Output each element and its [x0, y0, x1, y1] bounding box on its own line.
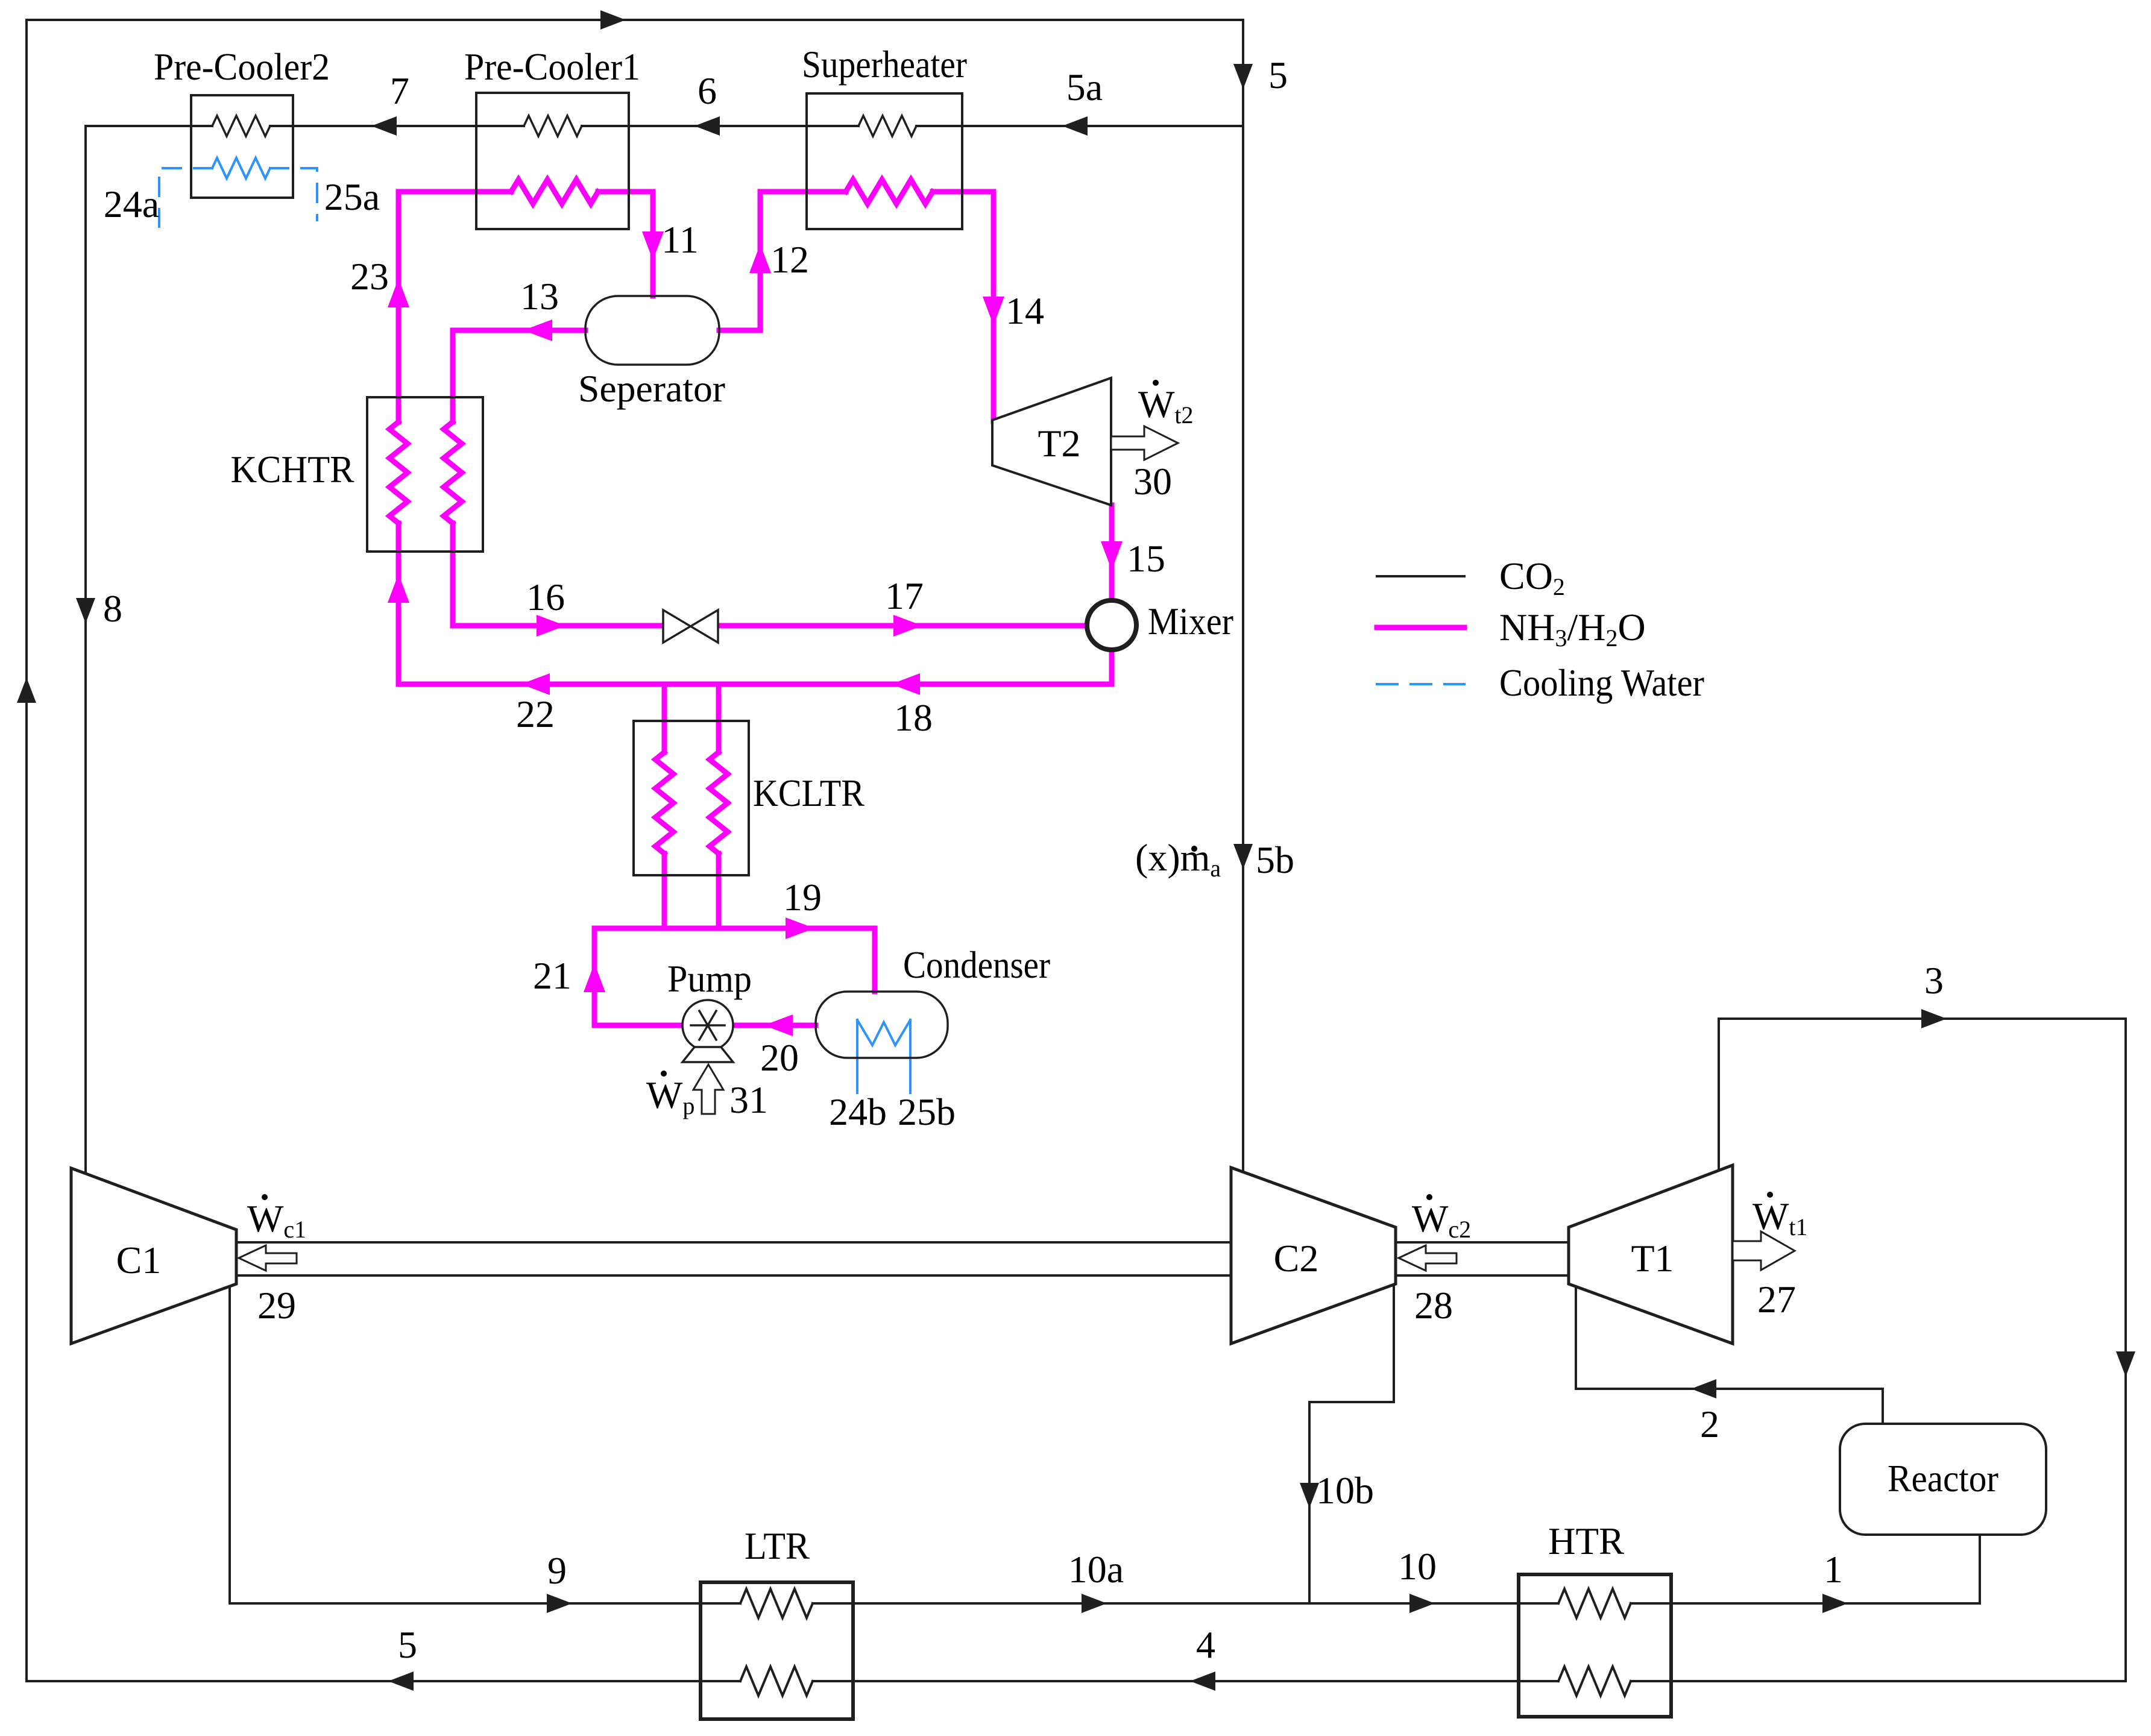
- heat exchanger KCHTR box: [367, 397, 483, 552]
- svg-text:NH3/H2O: NH3/H2O: [1499, 606, 1646, 652]
- svg-text:9: 9: [547, 1549, 567, 1592]
- svg-text:18: 18: [894, 696, 933, 739]
- wire 12 from Seperator to Superheater: [719, 192, 846, 330]
- svg-text:4: 4: [1196, 1623, 1215, 1666]
- work arrow Wc2 into C2: [1399, 1245, 1457, 1271]
- wire 14 from Superheater to turbine T2: [933, 192, 994, 421]
- arrow 1 right: [1822, 1594, 1848, 1613]
- wire KCLTR right branch (18 down to 19): [716, 684, 722, 752]
- turbine T1: [1569, 1165, 1733, 1344]
- compressor C2: [1231, 1168, 1396, 1344]
- svg-text:11: 11: [661, 218, 699, 261]
- svg-text:13: 13: [520, 275, 559, 318]
- svg-text:14: 14: [1006, 289, 1044, 332]
- svg-text:(x)ma: (x)ma: [1135, 836, 1221, 882]
- svg-text:Mixer: Mixer: [1148, 600, 1233, 643]
- arrow left riser up: [17, 678, 36, 703]
- svg-text:5b: 5b: [1256, 838, 1294, 881]
- arrow KCHTR inlet up: [388, 574, 409, 603]
- wire top CO2 line (to 5): [27, 19, 1243, 21]
- svg-text:KCHTR: KCHTR: [231, 448, 354, 491]
- svg-text:19: 19: [783, 876, 822, 919]
- svg-text:30: 30: [1133, 460, 1172, 503]
- wire Pump to 21 corner: [594, 1023, 682, 1028]
- wire 20 Condenser to Pump: [733, 1023, 816, 1028]
- heat exchanger Pre-Cooler1 box: [476, 93, 629, 229]
- svg-text:Condenser: Condenser: [903, 943, 1050, 986]
- svg-text:C1: C1: [116, 1239, 162, 1282]
- wire left outer vertical (5 to top): [25, 20, 28, 1681]
- svg-text:T2: T2: [1038, 422, 1080, 465]
- heat exchanger Pre-Cooler2 box: [191, 95, 293, 198]
- svg-text:Seperator: Seperator: [578, 367, 725, 410]
- arrow 7 left: [371, 116, 397, 136]
- wire right vertical from 3 down: [2124, 1019, 2127, 1681]
- wire cooling water 25b: [909, 1020, 912, 1093]
- svg-text:25a: 25a: [324, 175, 380, 218]
- mixer circle: [1087, 600, 1136, 650]
- legend cooling water sample line (dashed): [1377, 683, 1464, 685]
- wire 22-23 riser through KCHTR left coil into Pre-Cooler1: [396, 523, 402, 684]
- svg-text:24a: 24a: [104, 183, 159, 225]
- svg-text:22: 22: [516, 693, 555, 735]
- arrow 4 left: [1190, 1672, 1215, 1691]
- turbine T2: [992, 378, 1111, 505]
- svg-text:10a: 10a: [1068, 1548, 1124, 1591]
- coil KCHTR right: [444, 422, 462, 523]
- svg-text:Pre-Cooler1: Pre-Cooler1: [464, 45, 640, 88]
- svg-text:27: 27: [1757, 1278, 1796, 1321]
- wire 15 from T2 to Mixer: [1109, 505, 1115, 600]
- svg-text:29: 29: [257, 1284, 296, 1327]
- coil LTR bottom: [740, 1667, 813, 1696]
- arrow 16 right: [537, 615, 565, 637]
- heat exchanger LTR box: [701, 1582, 853, 1719]
- svg-text:21: 21: [533, 954, 572, 997]
- svg-text:KCLTR: KCLTR: [753, 772, 864, 814]
- arrow 12 up: [749, 244, 771, 273]
- wire shaft C2-T1: [1396, 1241, 1569, 1244]
- heat exchanger KCLTR box: [634, 721, 749, 875]
- svg-text:HTR: HTR: [1548, 1520, 1624, 1562]
- svg-text:LTR: LTR: [745, 1524, 810, 1567]
- arrow 22 left: [521, 673, 550, 695]
- arrow 17 right: [893, 615, 922, 637]
- work arrow Wc1 into C1: [239, 1245, 297, 1271]
- wire 5a-6-7 line through Superheater, Pre-Cooler1, Pre-Cooler2: [916, 125, 1243, 127]
- arrow 10b down: [1300, 1483, 1319, 1508]
- heat exchanger Superheater box: [807, 93, 962, 229]
- pump impeller asterisk: [691, 1024, 725, 1027]
- arrow 2 left: [1691, 1379, 1716, 1398]
- wire 8 vertical into C1: [84, 126, 87, 1174]
- svg-text:5a: 5a: [1066, 66, 1103, 108]
- svg-text:31: 31: [729, 1078, 768, 1121]
- coil KCHTR left: [389, 422, 408, 523]
- arrow 15 down: [1101, 541, 1123, 570]
- svg-text:Pump: Pump: [667, 957, 752, 1000]
- coil Superheater NH3 side: [846, 180, 933, 204]
- svg-text:28: 28: [1414, 1284, 1453, 1327]
- arrow 10 right: [1409, 1594, 1435, 1613]
- arrow 6 left: [694, 116, 720, 136]
- wire 10b from C2 outlet: [1309, 1285, 1394, 1603]
- coil KCLTR left: [655, 752, 673, 854]
- coil HTR top: [1558, 1589, 1631, 1618]
- coil Superheater CO2 side: [858, 116, 916, 136]
- arrow right side down: [2116, 1351, 2135, 1377]
- coil LTR top: [740, 1589, 813, 1618]
- arrow 11 down: [642, 231, 664, 260]
- wire 11 from Pre-Cooler1 to Seperator: [598, 192, 653, 296]
- wire 1 riser into Reactor: [1979, 1535, 1981, 1603]
- work arrow Wp into Pump: [693, 1065, 723, 1114]
- arrow 3 right: [1921, 1009, 1947, 1028]
- wire 19-21 horizontal run to Condenser: [594, 928, 875, 1025]
- svg-text:Cooling Water: Cooling Water: [1499, 661, 1704, 704]
- arrow 8 down: [76, 598, 95, 623]
- vessel Seperator: [585, 296, 719, 365]
- svg-text:7: 7: [390, 69, 409, 112]
- arrow 20 left: [764, 1014, 793, 1036]
- legend CO2 sample line: [1377, 575, 1464, 577]
- coil Pre-Cooler1 CO2 side: [524, 116, 582, 136]
- arrow 13 left: [523, 319, 552, 341]
- heat exchanger HTR box: [1519, 1574, 1671, 1717]
- svg-text:25b: 25b: [898, 1090, 956, 1133]
- svg-text:8: 8: [103, 587, 122, 630]
- svg-text:6: 6: [698, 69, 717, 112]
- arrow 9 right: [547, 1594, 572, 1613]
- svg-text:5: 5: [398, 1623, 417, 1666]
- svg-text:2: 2: [1700, 1403, 1719, 1445]
- arrow top line right: [600, 10, 626, 30]
- wire 9-10a-10-1 line from C1 through LTR and HTR: [230, 1286, 740, 1603]
- wire cooling water 25a (dashed): [270, 168, 317, 220]
- arrow 23 up: [388, 278, 409, 307]
- svg-text:10b: 10b: [1316, 1469, 1374, 1512]
- legend NH3/H2O sample line: [1377, 625, 1464, 631]
- arrow 19 right: [786, 917, 814, 939]
- wire 18-22 from Mixer bottom to KCHTR: [398, 650, 1112, 684]
- wire cooling water 24a (dashed): [159, 168, 212, 227]
- compressor C1: [71, 1168, 236, 1344]
- wire 2 from Reactor to T1: [1576, 1286, 1883, 1424]
- svg-text:23: 23: [350, 255, 389, 298]
- wire 16 from KCHTR through valve: [453, 523, 663, 626]
- arrow 21 up: [584, 963, 605, 992]
- wire 13 from Seperator into KCHTR right coil: [453, 330, 585, 422]
- wire KCLTR left branch (21 up): [662, 684, 667, 752]
- wire shaft C1-C2: [236, 1241, 1231, 1244]
- svg-text:1: 1: [1824, 1548, 1843, 1591]
- arrow 5a left: [1062, 116, 1088, 136]
- pump base: [682, 1047, 733, 1062]
- coil Pre-Cooler1 NH3 side: [511, 180, 598, 204]
- svg-text:C2: C2: [1274, 1237, 1319, 1280]
- svg-text:12: 12: [770, 238, 809, 281]
- svg-text:15: 15: [1127, 537, 1165, 580]
- svg-text:5: 5: [1268, 54, 1288, 96]
- pump circle: [682, 1000, 733, 1051]
- wire bottom 4-5 line through HTR and LTR: [27, 1680, 740, 1682]
- svg-text:16: 16: [526, 576, 565, 618]
- svg-text:T1: T1: [1631, 1237, 1674, 1280]
- svg-text:Superheater: Superheater: [802, 43, 967, 86]
- svg-text:Reactor: Reactor: [1888, 1457, 1998, 1500]
- svg-text:Pre-Cooler2: Pre-Cooler2: [154, 45, 330, 88]
- coil Pre-Cooler2 CO2 side: [212, 116, 270, 136]
- coil HTR bottom: [1558, 1667, 1631, 1696]
- work arrow Wt2 out of T2: [1111, 426, 1178, 460]
- svg-text:24b: 24b: [829, 1090, 887, 1133]
- svg-text:3: 3: [1924, 959, 1944, 1002]
- arrow 14 down: [983, 297, 1004, 325]
- svg-text:17: 17: [885, 574, 924, 617]
- arrow 18 left: [891, 673, 920, 695]
- svg-text:20: 20: [760, 1036, 799, 1079]
- coil Condenser cooling water: [857, 1020, 910, 1045]
- arrow 5 down: [1233, 64, 1253, 89]
- wire cooling water 24b: [856, 1020, 858, 1093]
- work arrow Wt1 out of T1: [1733, 1231, 1795, 1270]
- arrow 10a right: [1082, 1594, 1107, 1613]
- coil Pre-Cooler2 cooling water: [212, 158, 270, 178]
- wire 3 from T1 top: [1719, 1019, 2126, 1171]
- vessel Condenser: [816, 992, 948, 1058]
- wire right vertical 5/5b into C2: [1242, 20, 1244, 1172]
- vessel Reactor: [1840, 1424, 2046, 1535]
- svg-text:10: 10: [1398, 1545, 1437, 1588]
- arrow 5b down: [1233, 844, 1253, 869]
- arrow 5 bottom left: [388, 1672, 414, 1691]
- valve between 16 and 17: [663, 610, 718, 643]
- coil KCLTR right: [710, 752, 728, 854]
